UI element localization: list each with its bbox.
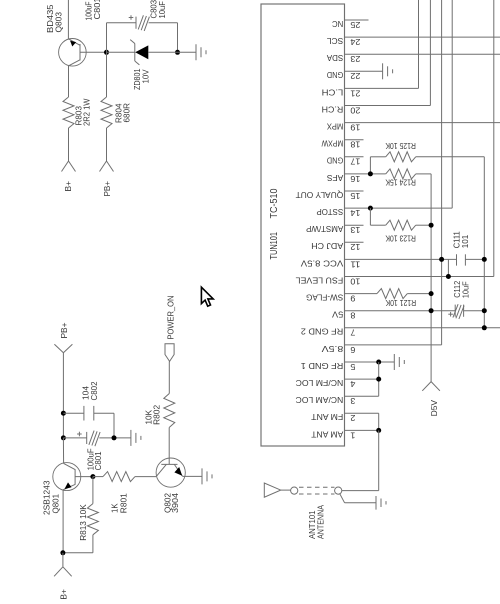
resistor R123 10K <box>386 220 416 230</box>
wire pin 14 SSTOP <box>345 207 453 209</box>
svg-text:13: 13 <box>350 225 360 235</box>
pin 21 label L.CH <box>322 87 361 98</box>
svg-text:10V: 10V <box>141 69 151 83</box>
label Q803 <box>45 4 64 33</box>
svg-text:6: 6 <box>350 345 355 355</box>
svg-text:16: 16 <box>350 174 360 184</box>
wire pin 2 FM ANT <box>345 413 379 430</box>
wire Q802 emitter to ground <box>183 475 202 477</box>
svg-text:R802: R802 <box>152 405 162 425</box>
svg-text:R.CH: R.CH <box>322 104 344 114</box>
wire pin 10 FSU LEVEL <box>345 276 494 278</box>
svg-text:R121 10K: R121 10K <box>385 298 416 308</box>
svg-text:SW-FLAG: SW-FLAG <box>306 293 343 303</box>
pin 22 label GND <box>327 70 361 81</box>
wire R803 to B+ <box>68 128 70 161</box>
wire node to R804 <box>106 52 108 97</box>
svg-text:20: 20 <box>350 105 360 115</box>
wire Q801 base <box>75 476 93 478</box>
svg-text:FSU LEVEL: FSU LEVEL <box>295 275 343 285</box>
wire pin 8 5V <box>345 310 456 312</box>
svg-text:PB+: PB+ <box>59 322 69 338</box>
svg-text:L.CH: L.CH <box>322 87 344 97</box>
wire Q803 collector to R803 <box>68 66 70 97</box>
capacitor C801 100uF electrolytic <box>77 431 131 447</box>
svg-text:25: 25 <box>350 20 360 30</box>
antenna connector left circle <box>291 487 298 494</box>
ground Q802 emitter <box>202 468 212 484</box>
label C803 <box>149 0 168 19</box>
wire down to Q801 <box>62 438 64 464</box>
label C111 <box>452 231 471 248</box>
label R802 <box>144 405 162 425</box>
wire emitter Q803 to top edge <box>67 0 69 39</box>
transistor Q801 2SB1243 <box>53 463 81 491</box>
label R801 <box>110 493 129 513</box>
svg-text:17: 17 <box>350 157 360 167</box>
node pin8 to D5V rail <box>429 308 434 313</box>
svg-text:15: 15 <box>350 191 360 201</box>
svg-text:10uF: 10uF <box>461 281 471 298</box>
pin 7 label RF GND 2 <box>301 327 356 338</box>
label ZD801 <box>132 68 151 90</box>
svg-text:680R: 680R <box>122 103 132 123</box>
svg-text:3: 3 <box>350 396 355 406</box>
node C802 tap <box>61 411 66 416</box>
node pin14 junction <box>368 206 373 211</box>
resistor R802 10K <box>164 394 175 428</box>
svg-text:NC: NC <box>332 19 343 29</box>
svg-text:1: 1 <box>350 430 355 440</box>
svg-text:101: 101 <box>460 235 470 249</box>
svg-text:C801: C801 <box>93 451 103 470</box>
wire R121 right <box>407 293 431 295</box>
label Q802 <box>162 493 180 513</box>
svg-text:ADJ CH: ADJ CH <box>311 241 343 251</box>
wire R125 left bend <box>370 157 385 174</box>
resistor R125 10K <box>386 152 416 162</box>
ground top-left <box>196 44 206 60</box>
wire pin 16 AFS <box>345 173 386 175</box>
node zener cathode-side junction <box>175 50 180 55</box>
svg-text:10uF: 10uF <box>157 1 167 19</box>
svg-text:4: 4 <box>350 379 355 389</box>
node pin11 to 8.5V rail <box>439 257 444 262</box>
pin 12 stub <box>345 241 364 243</box>
pin 16 label AFS <box>327 173 361 184</box>
resistor R803 <box>63 97 74 128</box>
svg-text:8: 8 <box>350 311 355 321</box>
svg-text:AMST/WP: AMST/WP <box>306 224 343 234</box>
wire PB+ down to C801 row <box>62 353 64 438</box>
svg-text:R813 10K: R813 10K <box>78 504 88 541</box>
node Q803 base junction <box>104 50 109 55</box>
pin 1 label AM ANT <box>310 429 355 440</box>
label POWER_ON <box>166 296 176 340</box>
wire pin 5 RF GND 1 <box>345 361 395 363</box>
svg-text:Q803: Q803 <box>54 12 64 33</box>
svg-text:QUALY OUT: QUALY OUT <box>295 190 343 200</box>
wire pin14 to R123 <box>370 208 385 225</box>
pin 4 label NC/FM LOC <box>296 378 356 389</box>
svg-text:23: 23 <box>350 54 360 64</box>
svg-text:AFS: AFS <box>327 173 344 183</box>
capacitor C112 10uF electrolytic <box>448 304 484 319</box>
pin 18 label MPXW <box>321 139 361 150</box>
pin 17 label GND <box>327 156 361 167</box>
wire pin 21 L.CH <box>345 0 419 88</box>
wire top loop left <box>107 23 137 53</box>
wire pin 3 NC/AM LOC <box>345 395 379 397</box>
wire pin 1 AM ANT <box>345 429 379 431</box>
pin 15 label QUALY OUT <box>295 190 361 201</box>
node pin5 junction <box>376 360 381 365</box>
pin 8 label 5V <box>332 310 356 321</box>
wire R124 right to D5V rail <box>416 174 431 382</box>
label 100uF C80x (clipped cap label) <box>84 0 103 21</box>
node pin10 junction <box>446 274 451 279</box>
svg-text:R125 10K: R125 10K <box>385 141 416 151</box>
svg-text:5: 5 <box>350 362 355 372</box>
svg-text:SCL: SCL <box>327 36 344 46</box>
pin 2 label FM ANT <box>310 412 355 423</box>
wire Q803 base <box>80 51 107 53</box>
wire antenna feed <box>342 430 379 490</box>
wire R801 to Q802 base <box>135 476 156 478</box>
svg-text:R123 10K: R123 10K <box>385 233 416 243</box>
wire SSTOP rail from top <box>451 0 453 208</box>
svg-text:B+: B+ <box>59 589 69 600</box>
svg-text:SDA: SDA <box>327 53 344 63</box>
svg-text:ANTENNA: ANTENNA <box>316 505 326 539</box>
wire zener anode side <box>107 51 135 53</box>
label Q801 <box>42 480 61 515</box>
wire pin5-pin4-pin3 link <box>378 362 380 396</box>
wire base node to R801 <box>93 476 103 478</box>
svg-text:5V: 5V <box>332 310 343 320</box>
wire pin 20 R.CH <box>345 0 431 106</box>
svg-text:D5V: D5V <box>429 400 439 417</box>
label R123 <box>385 233 416 243</box>
flag POWER_ON <box>165 344 174 362</box>
label R121 <box>385 298 416 308</box>
pin 14 label SSTOP <box>316 207 360 218</box>
wire pin 7 RF GND 2 <box>345 327 500 329</box>
IC U TUN101 box <box>261 4 345 446</box>
svg-text:2R2 1W: 2R2 1W <box>82 99 92 127</box>
svg-text:Q801: Q801 <box>51 494 61 514</box>
wire Q802 collector <box>168 427 170 464</box>
capacitor C803 10uF electrolytic <box>129 15 178 31</box>
wire C802 down to C801 row <box>113 413 115 438</box>
zener diode ZD801 10V <box>130 40 196 65</box>
svg-text:22: 22 <box>350 71 360 81</box>
node C111 right on ground rail <box>482 257 487 262</box>
terminal B+ bottom <box>54 567 72 600</box>
wire C111 left down to pin10 <box>447 259 449 276</box>
pin 17 stub <box>345 156 364 158</box>
wire top loop right <box>177 23 179 53</box>
svg-text:10: 10 <box>350 276 360 286</box>
ground pin 5 <box>394 354 404 370</box>
node B+ bottom junction <box>60 550 65 555</box>
svg-text:14: 14 <box>350 208 360 218</box>
node pin4 junction <box>376 377 381 382</box>
svg-text:21: 21 <box>350 88 360 98</box>
wire antenna shield to ground <box>340 494 376 503</box>
pin 13 stub <box>345 224 364 226</box>
svg-text:NC/FM LOC: NC/FM LOC <box>296 378 344 388</box>
label R804 <box>114 103 132 123</box>
svg-text:9: 9 <box>350 294 355 304</box>
wire to B+ bottom <box>62 553 64 567</box>
wire pin 4 NC/FM LOC <box>345 378 379 380</box>
wire pin 23 SDA <box>345 53 500 55</box>
terminal B+ top <box>62 161 76 192</box>
wire 8.5V rail from top <box>441 0 443 345</box>
node ground rail to pin7 <box>482 325 487 330</box>
svg-text:8.5V: 8.5V <box>321 344 343 354</box>
svg-text:PB+: PB+ <box>102 181 112 197</box>
ground pin 22 <box>383 63 393 79</box>
node R123 to D5V rail <box>429 223 434 228</box>
wire pin 22 GND <box>345 70 383 72</box>
wire R804 to PB+ <box>106 128 108 161</box>
wire R123 right <box>416 224 431 226</box>
wire ground rail vertical <box>483 157 485 328</box>
pin 18 stub <box>345 139 364 141</box>
label C112 <box>452 281 471 299</box>
node Q801 base <box>90 474 95 479</box>
svg-text:3904: 3904 <box>170 493 180 513</box>
svg-text:MPX: MPX <box>327 122 344 132</box>
capacitor C111 101 <box>457 254 485 265</box>
pin 19 label MPX <box>327 122 361 133</box>
svg-text:18: 18 <box>350 140 360 150</box>
svg-text:TUN101: TUN101 <box>269 232 280 260</box>
svg-text:C802: C802 <box>89 381 99 400</box>
terminal D5V <box>422 382 440 417</box>
pin 23 label SDA <box>327 53 361 64</box>
node C112 right on ground rail <box>482 308 487 313</box>
terminal PB+ top <box>100 161 114 197</box>
pin 11 label VCC 8.5V <box>301 258 361 269</box>
node pin1 junction <box>376 428 381 433</box>
pin 6 label 8.5V <box>321 344 355 355</box>
svg-text:C801: C801 <box>92 0 102 20</box>
pin 9 label SW-FLAG <box>306 293 356 304</box>
wire C801 row left <box>63 437 86 439</box>
svg-text:TC-510: TC-510 <box>269 188 280 218</box>
wire pin 19 MPX <box>345 122 500 124</box>
svg-text:RF GND 1: RF GND 1 <box>301 361 344 371</box>
wire Q801 emitter down <box>62 490 64 553</box>
svg-text:B+: B+ <box>63 181 73 192</box>
wire R813 bottom <box>63 535 93 553</box>
svg-text:MPXW: MPXW <box>321 139 343 149</box>
node pin16 junction <box>368 171 373 176</box>
svg-text:VCC 8.5V: VCC 8.5V <box>301 258 344 268</box>
svg-text:AM ANT: AM ANT <box>310 429 343 439</box>
svg-text:GND: GND <box>327 70 343 80</box>
wire to C802 <box>63 412 84 414</box>
resistor R121 10K <box>377 289 407 299</box>
pin 15 stub <box>345 190 364 192</box>
transistor Q802 3904 <box>156 458 185 487</box>
svg-text:RF GND 2: RF GND 2 <box>301 327 344 337</box>
svg-text:12: 12 <box>350 242 360 252</box>
wire pin 24 SCL <box>345 36 500 38</box>
svg-text:11: 11 <box>350 259 360 269</box>
wire pin 9 SW-FLAG <box>345 293 378 295</box>
label C802 <box>81 381 100 400</box>
antenna connector right circle <box>335 487 342 494</box>
label R803 <box>74 99 92 127</box>
wire base down to R813 <box>92 477 94 504</box>
svg-text:R801: R801 <box>119 493 129 513</box>
antenna ANT101 triangle <box>264 483 290 497</box>
transistor Q803 BD435 <box>59 39 87 67</box>
pin 25 stub <box>345 19 369 21</box>
svg-text:19: 19 <box>350 123 360 133</box>
resistor R124 15K <box>386 169 416 179</box>
pin 12 label ADJ CH <box>311 241 360 252</box>
terminal PB+ bottom <box>54 322 72 352</box>
pin 20 label R.CH <box>322 104 361 115</box>
pin 3 label NC/AM LOC <box>296 395 356 406</box>
wire pin 6 8.5V <box>345 344 442 346</box>
mouse cursor <box>201 287 213 306</box>
resistor R804 <box>101 97 112 128</box>
wire R802 to flag <box>168 361 170 393</box>
svg-text:FM ANT: FM ANT <box>310 412 343 422</box>
svg-text:SSTOP: SSTOP <box>316 207 343 217</box>
ground antenna <box>376 496 386 510</box>
node R121 to D5V rail <box>429 291 434 296</box>
label R125 <box>385 141 416 151</box>
resistor R801 1K <box>103 472 135 482</box>
ground C801 <box>131 430 141 446</box>
label C801 <box>86 448 104 470</box>
label TUN101 <box>269 188 280 259</box>
svg-text:POWER_ON: POWER_ON <box>166 296 176 340</box>
pin 10 label FSU LEVEL <box>295 275 360 286</box>
svg-text:GND: GND <box>327 156 343 166</box>
capacitor C802 104 <box>84 406 114 421</box>
label ANT101 <box>307 505 326 539</box>
wire MPX rail from top <box>493 0 495 277</box>
antenna cable dashed shield <box>299 487 335 494</box>
pin 25 label NC <box>332 19 360 30</box>
svg-text:2: 2 <box>350 413 355 423</box>
label R124 <box>385 178 416 188</box>
label R813 <box>78 504 88 541</box>
svg-text:R124 15K: R124 15K <box>385 178 416 188</box>
wire R125 right to ground rail <box>416 156 485 158</box>
svg-text:7: 7 <box>350 328 355 338</box>
resistor R813 <box>87 504 98 535</box>
pin 24 label SCL <box>327 36 361 47</box>
wire pin 11 VCC 8.5V <box>345 258 457 260</box>
node C801 left <box>61 435 66 440</box>
node C801 right junction <box>112 435 117 440</box>
svg-text:NC/AM LOC: NC/AM LOC <box>296 395 344 405</box>
svg-text:24: 24 <box>350 37 360 47</box>
pin 5 label RF GND 1 <box>301 361 356 372</box>
pin 13 label AMST/WP <box>306 224 361 235</box>
